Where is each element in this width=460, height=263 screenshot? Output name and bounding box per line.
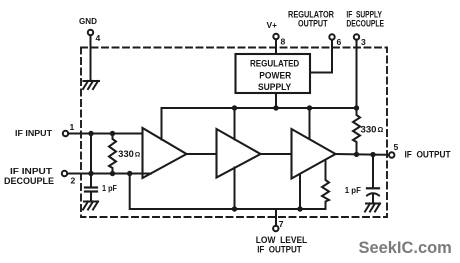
- svg-text:Ω: Ω: [378, 125, 384, 134]
- svg-text:Ω: Ω: [135, 152, 141, 159]
- svg-text:REGULATED: REGULATED: [250, 58, 300, 68]
- ground (C2 earth symbol): [365, 204, 380, 212]
- pin 6 REGULATOR OUTPUT terminal: [288, 10, 342, 48]
- svg-text:IF OUTPUT: IF OUTPUT: [257, 245, 302, 255]
- ground (GND pin earth symbol): [83, 81, 99, 89]
- wire V+ supply rail (top): [162, 108, 357, 140]
- capacitor C1 1 pF: [85, 174, 117, 202]
- node rail/amp3: [307, 105, 312, 110]
- wire pin3 down to rail: [356, 40, 358, 108]
- IC package outline (dashed): [81, 48, 387, 218]
- wire supply box to rail: [275, 93, 277, 108]
- svg-text:DECOUPLE: DECOUPLE: [4, 176, 54, 186]
- svg-text:IF INPUT: IF INPUT: [10, 166, 53, 176]
- svg-text:330: 330: [361, 125, 377, 136]
- svg-text:7: 7: [279, 219, 284, 229]
- op-amp A2: [217, 129, 261, 178]
- svg-text:3: 3: [361, 37, 366, 47]
- wire amp2 top: [234, 108, 236, 139]
- svg-text:1: 1: [70, 122, 75, 132]
- node rail/V+: [273, 105, 278, 110]
- node rail/R3: [354, 105, 359, 110]
- svg-text:DECOUPLE: DECOUPLE: [346, 19, 384, 29]
- svg-text:8: 8: [281, 37, 286, 47]
- wire A3 bottom left: [299, 174, 301, 209]
- svg-text:IF INPUT: IF INPUT: [15, 128, 53, 138]
- wire between input nodes: [90, 134, 92, 174]
- op-amp A1: [143, 128, 187, 178]
- pin 7 LOW LEVEL IF OUTPUT terminal: [256, 219, 308, 255]
- node input/R1: [110, 131, 115, 136]
- node decouple/C1: [88, 171, 93, 176]
- svg-text:2: 2: [71, 176, 76, 186]
- wire A2 out to A3 in: [261, 153, 292, 155]
- wire A2 bottom: [234, 168, 236, 210]
- wire pin6 to supply box: [310, 40, 332, 73]
- pin 5 IF OUTPUT terminal: [389, 142, 451, 161]
- node decouple/R1: [110, 171, 115, 176]
- wire IF output: [336, 153, 390, 156]
- svg-text:5: 5: [394, 142, 399, 152]
- node rail/amp2: [232, 105, 237, 110]
- wire decouple: [67, 173, 151, 175]
- pin 1 IF INPUT terminal: [15, 122, 75, 138]
- svg-text:OUTPUT: OUTPUT: [298, 19, 328, 29]
- node decouple/rail: [127, 171, 132, 176]
- resistor R1 330 ohm: [109, 134, 141, 174]
- wire amp3 top: [309, 108, 311, 139]
- svg-text:1 pF: 1 pF: [345, 185, 361, 195]
- wire ground rail (bottom): [130, 174, 326, 210]
- regulated power supply U1: [236, 54, 311, 93]
- pin 3 IF SUPPLY DECOUPLE terminal: [346, 10, 384, 48]
- pin 2 IF INPUT DECOUPLE terminal: [4, 166, 76, 186]
- node out/C2: [370, 152, 375, 157]
- pin 4 GND terminal: [79, 17, 101, 81]
- resistor R2 (below A3): [322, 160, 329, 209]
- svg-text:SeekIC.com: SeekIC.com: [359, 239, 452, 257]
- svg-text:4: 4: [96, 33, 101, 43]
- node out/R3: [354, 152, 359, 157]
- wire pin7 drop: [275, 209, 277, 226]
- svg-text:1 pF: 1 pF: [102, 183, 117, 193]
- node rail/A2: [232, 206, 237, 211]
- svg-text:GND: GND: [79, 17, 97, 26]
- node input/C1: [88, 131, 93, 136]
- svg-text:V+: V+: [267, 21, 278, 30]
- svg-text:IF OUTPUT: IF OUTPUT: [405, 150, 451, 161]
- resistor R3 330 ohm: [353, 108, 384, 155]
- svg-text:LOW LEVEL: LOW LEVEL: [256, 235, 308, 245]
- svg-text:POWER: POWER: [259, 70, 291, 80]
- wire A1 out to A2 in: [187, 153, 217, 155]
- svg-text:330: 330: [118, 149, 134, 160]
- op-amp A3: [292, 129, 336, 179]
- node rail/A3: [297, 206, 302, 211]
- pin 8 V+ terminal: [267, 21, 286, 54]
- wire IF input: [68, 133, 142, 135]
- ground (C1 earth symbol): [83, 202, 98, 210]
- svg-text:6: 6: [337, 37, 342, 47]
- capacitor C2 1 pF: [345, 155, 379, 204]
- svg-text:SUPPLY: SUPPLY: [258, 82, 291, 92]
